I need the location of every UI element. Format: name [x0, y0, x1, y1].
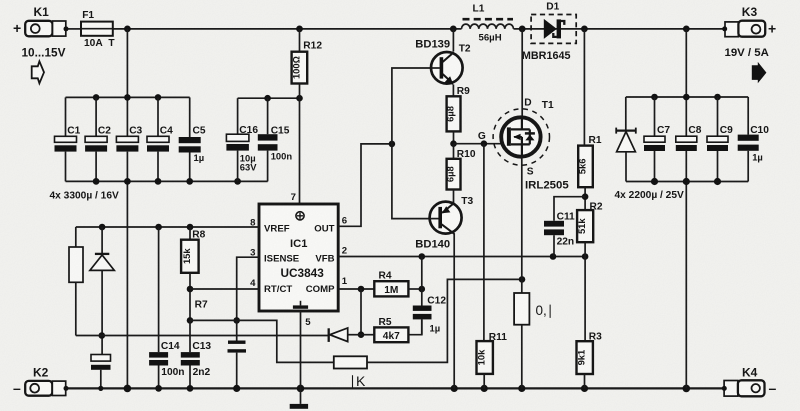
wire: VFB pin 2 line — [338, 256, 585, 258]
wire: left cap bank top rail — [66, 96, 190, 98]
wire: ISENSE cross link to R7/C13 node — [190, 319, 237, 321]
wire: COMP down leg — [360, 289, 362, 335]
wire: base node down to T3 base — [392, 144, 439, 219]
junction: VREF / C14 — [155, 224, 162, 231]
wire: COMP pin 1 — [338, 288, 374, 290]
wire: sense resistor to 0.1 ohm top — [367, 279, 522, 362]
capacitor C3 — [116, 126, 142, 152]
capacitor C5 1u — [179, 97, 206, 181]
capacitor C10 1u — [738, 97, 770, 182]
inductor L1 56uH — [462, 4, 514, 44]
resistor R10 6u8 — [445, 144, 476, 190]
transistor T2 BD139 (NPN) — [415, 29, 471, 96]
zener diode (output clamp, cathode up) — [616, 97, 636, 182]
wire: T1 source down to sense node — [521, 157, 523, 280]
wire: gate line — [454, 143, 508, 145]
resistor (unlabeled, VREF divider) — [69, 227, 83, 336]
junction: out cap rail dots — [651, 94, 658, 101]
wire: left cap bank bottom rail — [66, 180, 268, 182]
junction: C15 top — [264, 95, 271, 102]
resistor R3 9k1 — [576, 257, 603, 389]
wire: RT/CT pin 4 line — [190, 288, 259, 290]
resistor R5 4k7 — [361, 317, 422, 342]
capacitor C7 — [644, 97, 670, 182]
junction: VFB / R4-C12 column — [419, 253, 426, 260]
ground symbol — [290, 388, 308, 408]
resistor R9 6u8 — [445, 86, 471, 144]
connector K1 — [13, 5, 69, 36]
junction: D1 cathode / R1 top — [581, 26, 588, 33]
junction: R9/R10 gate node — [450, 140, 457, 147]
wire: long reference line (resistor bottom to soft-start diode) — [76, 335, 329, 337]
junction: out cap bottom dots — [651, 178, 658, 185]
capacitor C14 100n — [149, 227, 184, 388]
resistor 0.1 ohm (hand-labelled, sense) — [514, 279, 553, 388]
junction: R4 right / C12 top — [419, 286, 426, 293]
junction: diode / R5 node — [358, 331, 365, 338]
junction: top rail / R12 — [296, 26, 303, 33]
symbol: output arrow (filled) — [752, 62, 767, 83]
capacitor C1 — [55, 97, 81, 181]
resistor R4 1M — [374, 271, 422, 297]
junction: R8 / RT-CT pin 4 — [187, 286, 194, 293]
wire: ISENSE to 1K sense resistor — [237, 320, 334, 362]
capacitor (below reference diode) — [91, 355, 111, 389]
junction: COMP node — [358, 286, 365, 293]
junction: top rail / C3 input feed — [124, 26, 131, 33]
wire: VFB column down through R4 node — [421, 257, 423, 306]
symbol: input arrow — [32, 61, 44, 83]
capacitor C11 22n — [544, 197, 585, 257]
wire: main top rail (input to output) — [66, 28, 81, 30]
capacitor C8 — [676, 125, 702, 151]
connector K4 — [722, 365, 777, 396]
junction: cap rail C4 — [155, 94, 162, 101]
junction: driver base node — [389, 141, 396, 148]
junction: ground rail dots — [98, 386, 103, 391]
wire: input vertical feed (top rail to C3 to bottom rail) — [126, 29, 128, 136]
resistor R2 51k — [576, 201, 603, 256]
capacitor C4 — [147, 97, 173, 181]
resistor R11 10k — [476, 332, 508, 388]
fuse F1 10A T — [81, 10, 115, 49]
wire: C16/C15 top rail to R12 column — [238, 97, 300, 99]
paper noise overlay — [0, 0, 1, 1]
wire: pin 7 feed (rail to IC1) — [299, 98, 301, 204]
diode D1 MBR1645 (schottky) — [522, 1, 576, 62]
junction: cap rail C3 — [124, 94, 131, 101]
capacitor C16 10u 63V — [226, 98, 258, 181]
junction: R1/R2/C11 node — [582, 193, 589, 200]
wire: VREF pin 8 line — [76, 226, 259, 228]
capacitor C12 1u — [413, 295, 447, 334]
junction: R12 bottom / pin7 column — [296, 95, 303, 102]
junction: VFB / R2-R3 divider — [582, 253, 589, 260]
resistor R1 5k6 — [576, 29, 601, 210]
junction: VREF / reference diode — [99, 224, 106, 231]
wire: ISENSE pin 3 line — [237, 257, 259, 320]
connector K3 — [722, 5, 776, 37]
resistor R8 15k — [181, 227, 206, 320]
diode (reference, cathode up) — [90, 227, 114, 355]
junction: diode column / long line — [99, 332, 106, 339]
capacitor C13 2n2 — [181, 320, 212, 388]
transistor T3 BD140 (PNP) — [415, 190, 473, 389]
capacitor C2 — [85, 97, 111, 181]
capacitor (ISENSE filter) — [228, 320, 247, 388]
wire: IC1 pin 5 to ground rail — [300, 311, 302, 388]
junction: ISENSE node — [233, 317, 240, 324]
junction: sense node at 0.1 ohm / T1 source — [519, 276, 526, 283]
resistor 1K (hand-labelled) — [334, 356, 367, 389]
junction: gate / R11 — [481, 140, 488, 147]
junction: cap bottom rail dots — [93, 178, 100, 185]
wire: output cap bank feed column — [685, 29, 687, 136]
junction: VFB / C11 — [550, 253, 557, 260]
connector K2 — [13, 365, 69, 396]
junction: cap rail C2 — [93, 94, 100, 101]
op-amp/controller IC1 UC3843 — [259, 204, 338, 311]
capacitor C9 — [707, 97, 733, 182]
wire: output cap bank top rail — [626, 96, 748, 98]
junction: top rail / output cap bank feed — [683, 26, 690, 33]
junction: VREF / R8 — [187, 224, 194, 231]
wire: main bottom (ground) rail — [66, 387, 725, 389]
resistor R12 100 Ohm — [290, 29, 322, 98]
junction: R7 / C13 / ISENSE branch — [187, 317, 194, 324]
transistor T1 IRL2505 (N-MOSFET) — [493, 29, 569, 192]
wire: output cap bank bottom rail — [626, 181, 748, 183]
wire: base node up to T2 base — [392, 68, 431, 144]
wire: OUT pin 6 to driver bases — [338, 144, 392, 226]
junction: L1 right / D1 anode / T1 drain — [519, 26, 526, 33]
capacitor C15 100n — [258, 98, 293, 181]
diode (soft start, cathode left) — [329, 328, 361, 342]
junction: top rail / T2 collector / L1 left — [450, 26, 457, 33]
wire: R11 gate pulldown column — [483, 144, 485, 341]
